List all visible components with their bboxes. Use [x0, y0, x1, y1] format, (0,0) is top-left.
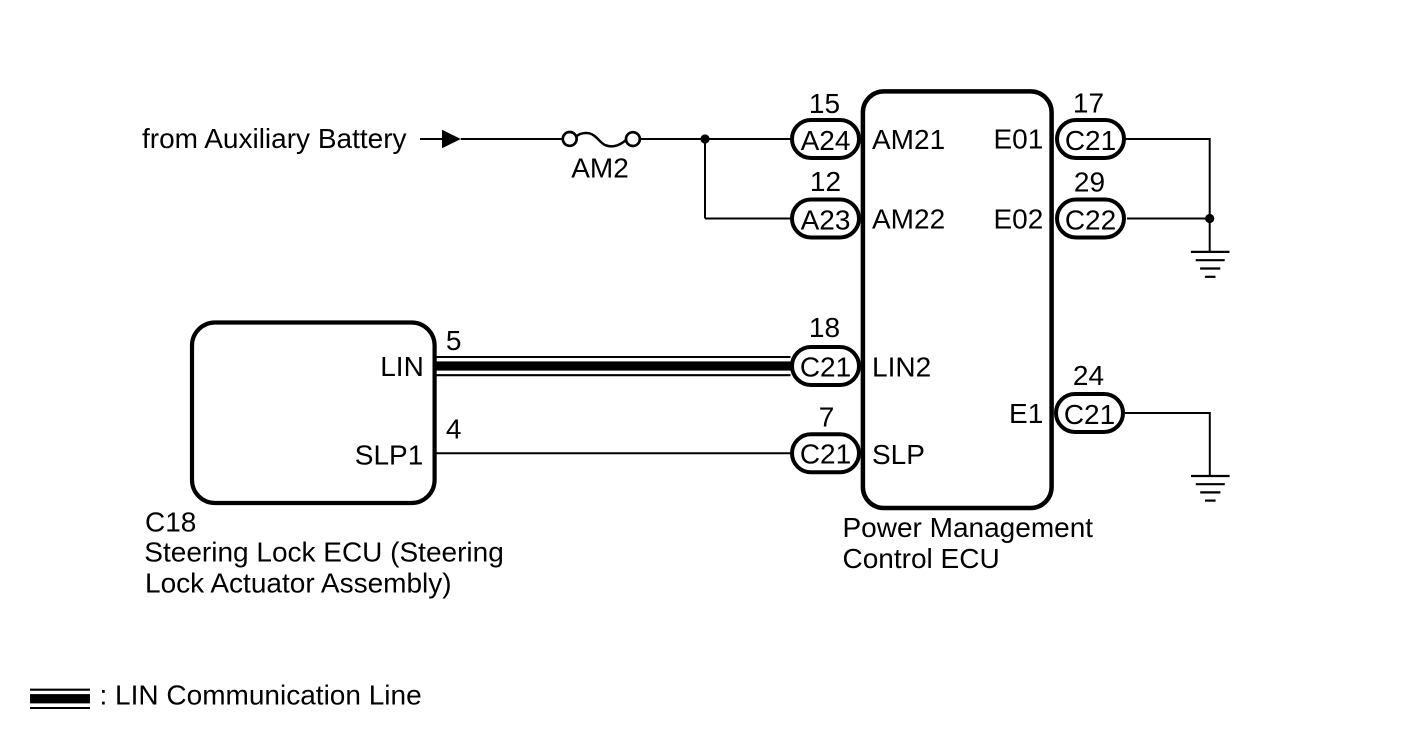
- wire junction to ground 1: [1209, 219, 1211, 252]
- wire junction to pill A23: [705, 218, 791, 220]
- fuse AM2 element wave: [577, 133, 626, 146]
- junction dot ground: [1205, 214, 1214, 223]
- svg-text:AM22: AM22: [872, 204, 945, 235]
- svg-text:29: 29: [1074, 167, 1105, 198]
- svg-text:4: 4: [446, 413, 462, 444]
- svg-text:Control ECU: Control ECU: [843, 543, 1000, 574]
- ground 1: [1191, 252, 1230, 277]
- svg-text:A24: A24: [801, 125, 851, 156]
- svg-text:LIN: LIN: [380, 351, 424, 382]
- junction dot: [700, 134, 709, 143]
- svg-text:E01: E01: [993, 124, 1043, 155]
- connector pin C21 (7): [792, 434, 859, 472]
- arrow head: [442, 130, 461, 148]
- wire arrow to fuse: [461, 138, 562, 140]
- wire junction down: [704, 139, 706, 219]
- svg-text:7: 7: [819, 401, 835, 432]
- svg-text:C21: C21: [1065, 125, 1116, 156]
- steering lock ECU box: [192, 323, 435, 504]
- svg-text:from Auxiliary Battery: from Auxiliary Battery: [142, 123, 407, 154]
- svg-text:C22: C22: [1065, 204, 1116, 235]
- svg-text:Steering Lock ECU (Steering: Steering Lock ECU (Steering: [144, 537, 504, 568]
- LIN communication wire (triple line): [435, 357, 791, 375]
- svg-text:24: 24: [1073, 360, 1104, 391]
- wire arrow tail: [420, 138, 443, 140]
- svg-text:5: 5: [446, 325, 462, 356]
- wire E1 to ground 2: [1125, 413, 1210, 476]
- wire SLP1 to C21: [435, 452, 791, 454]
- svg-text:Lock Actuator Assembly): Lock Actuator Assembly): [145, 568, 452, 599]
- svg-text:: LIN Communication Line: : LIN Communication Line: [100, 680, 422, 711]
- connector pin C21 (18): [792, 347, 859, 385]
- svg-text:C21: C21: [800, 352, 851, 383]
- ground 2: [1191, 476, 1230, 501]
- wire E01 to ground corner: [1126, 139, 1210, 219]
- connector pin A24: [792, 120, 859, 158]
- connector pin C21 (24): [1056, 394, 1123, 432]
- svg-text:SLP: SLP: [872, 439, 925, 470]
- svg-text:15: 15: [809, 88, 840, 119]
- svg-text:12: 12: [810, 166, 841, 197]
- fuse AM2 left terminal: [563, 132, 577, 146]
- connector pin A23: [792, 200, 859, 238]
- connector pin C21 (17): [1057, 120, 1124, 158]
- wire fuse to pill A24: [641, 138, 791, 140]
- svg-text:E02: E02: [993, 204, 1043, 235]
- svg-text:Power Management: Power Management: [843, 512, 1094, 543]
- svg-text:AM2: AM2: [571, 153, 629, 184]
- svg-text:SLP1: SLP1: [355, 439, 424, 470]
- svg-text:C21: C21: [1064, 399, 1115, 430]
- wire E02 to junction: [1127, 218, 1210, 220]
- svg-text:18: 18: [809, 312, 840, 343]
- ECU box Power Management Control ECU: [863, 91, 1052, 508]
- svg-text:C21: C21: [800, 439, 851, 470]
- svg-text:E1: E1: [1009, 398, 1043, 429]
- svg-text:A23: A23: [801, 204, 851, 235]
- fuse AM2 right terminal: [626, 132, 640, 146]
- svg-text:C18: C18: [145, 506, 196, 537]
- svg-text:LIN2: LIN2: [872, 352, 931, 383]
- svg-text:AM21: AM21: [872, 124, 945, 155]
- svg-text:17: 17: [1073, 88, 1104, 119]
- connector pin C22 (29): [1057, 200, 1124, 238]
- legend LIN line symbol: [30, 690, 90, 708]
